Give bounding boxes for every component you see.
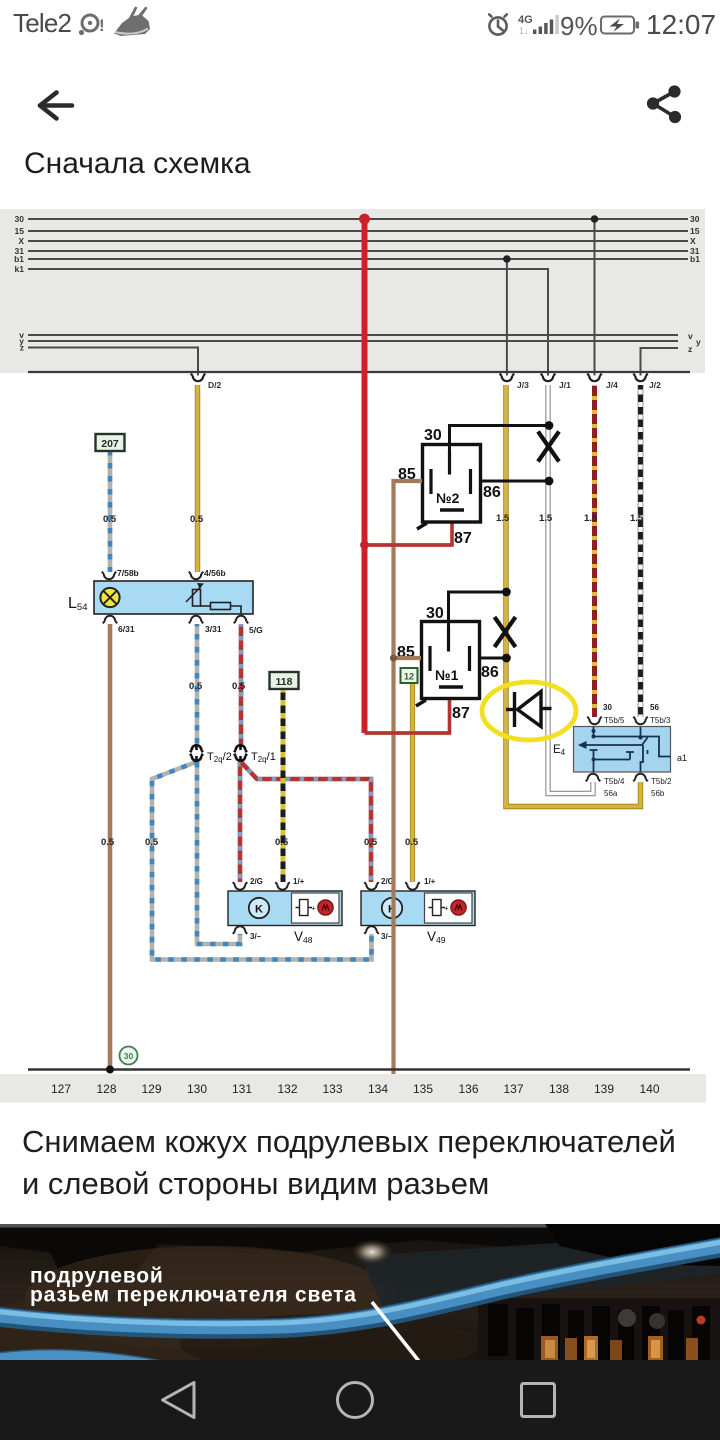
wire red/yellow from J/4 to E4 T5b/5	[592, 385, 597, 717]
wire grey/blue from T2q/2 to V48 3/-	[197, 762, 240, 944]
wire red from relay1 87 to red feed	[365, 699, 450, 733]
bus k1 wire to J/1	[28, 269, 548, 376]
headlight range motor V49	[361, 877, 475, 945]
wire red/blue from L54 5/G to splice T2q/1	[239, 624, 244, 744]
svg-text:z: z	[688, 344, 692, 354]
svg-text:56a: 56a	[604, 789, 618, 798]
svg-text:1↓: 1↓	[519, 26, 529, 36]
bus 31	[28, 250, 688, 252]
svg-text:133: 133	[322, 1082, 342, 1096]
photo	[0, 1224, 720, 1360]
svg-text:D/2: D/2	[208, 380, 222, 390]
diode between yellow and white wires	[506, 692, 552, 728]
node red feed to relay2 87	[360, 541, 369, 550]
svg-text:y: y	[696, 337, 701, 347]
svg-text:1.5: 1.5	[496, 513, 510, 524]
svg-text:0.5: 0.5	[275, 837, 289, 848]
pin V48 3/-	[233, 926, 247, 934]
svg-text:135: 135	[413, 1082, 433, 1096]
fuse label box 207	[96, 434, 125, 451]
alarm clock icon	[489, 14, 507, 34]
connector block	[478, 1298, 720, 1360]
connector J/1	[541, 374, 555, 382]
connector J/3	[500, 374, 514, 382]
pin 7/58b	[102, 572, 116, 580]
svg-text:207: 207	[101, 438, 119, 450]
svg-text:b1: b1	[690, 254, 700, 264]
node relay1 86 on yellow wire	[502, 654, 511, 663]
caption text	[22, 1121, 676, 1205]
wire J/4 drop from bus 30	[594, 219, 596, 376]
pin 3/31	[189, 616, 203, 624]
svg-text:137: 137	[503, 1082, 523, 1096]
svg-text:138: 138	[549, 1082, 569, 1096]
svg-text:12: 12	[404, 672, 414, 682]
app nav row: back arrow	[0, 70, 720, 140]
ground designation circle 30	[120, 1047, 138, 1065]
svg-text:1.5: 1.5	[630, 513, 644, 524]
pin V48 2/G	[233, 882, 247, 890]
svg-text:3/–: 3/–	[381, 932, 393, 941]
wire relay2 86 to white wire	[480, 480, 550, 483]
svg-text:4G: 4G	[518, 14, 533, 26]
svg-text:J/1: J/1	[559, 380, 571, 390]
svg-text:132: 132	[277, 1082, 297, 1096]
svg-text:56: 56	[650, 703, 659, 712]
highlight ellipse around diode	[482, 682, 576, 740]
svg-text:0.5: 0.5	[190, 514, 204, 525]
wire red relay2 87 over crossings	[367, 543, 452, 547]
svg-text:86: 86	[481, 664, 499, 681]
node on bus b1	[503, 255, 511, 263]
wire yellow from J/3 to E4 T5b/2	[506, 385, 641, 807]
svg-text:1.5: 1.5	[539, 513, 553, 524]
svg-text:z: z	[20, 343, 24, 353]
notification icon ring	[79, 15, 98, 35]
svg-text:127: 127	[51, 1082, 71, 1096]
red feed wire from bus 30	[362, 219, 368, 733]
wire red/blue from T2q/1 to V49 2/G	[241, 762, 371, 882]
current track number band	[0, 1074, 706, 1103]
svg-text:30: 30	[603, 703, 612, 712]
node brown1 on ground rail	[106, 1066, 114, 1074]
relay No2	[398, 427, 501, 547]
pin T5b/5	[587, 717, 601, 725]
svg-text:56b: 56b	[651, 789, 665, 798]
bus y	[28, 340, 678, 342]
splice label box 12	[401, 668, 418, 683]
status bar	[0, 0, 720, 48]
blue cable	[0, 1246, 720, 1329]
svg-text:1/+: 1/+	[424, 877, 436, 886]
wire red relay1 87 over crossings	[365, 731, 450, 735]
pin T5b/2	[633, 774, 647, 782]
svg-text:0.5: 0.5	[101, 837, 115, 848]
pin V49 1/+	[405, 882, 419, 890]
svg-text:134: 134	[368, 1082, 388, 1096]
wire relay1 86 to yellow wire	[479, 657, 507, 660]
svg-text:T2q/2: T2q/2	[207, 751, 232, 764]
bus b1	[28, 258, 688, 260]
svg-text:0.5: 0.5	[405, 837, 419, 848]
svg-text:86: 86	[483, 484, 501, 501]
bus z right wire to J/2	[641, 348, 679, 376]
svg-text:K: K	[255, 904, 263, 916]
svg-text:0.5: 0.5	[364, 837, 378, 848]
svg-text:4/56b: 4/56b	[204, 568, 226, 578]
svg-text:E4: E4	[553, 744, 566, 757]
svg-text:X: X	[18, 236, 24, 246]
wire grey/blue from L54 3/31 to splice T2q/2	[195, 624, 200, 744]
instrument lighting control L54	[68, 568, 263, 635]
svg-text:k1: k1	[15, 264, 25, 274]
wire brown from relay 85 terminals to ground rail	[394, 481, 423, 1074]
wire white from J/1 to E4 T5b/4	[548, 385, 593, 794]
svg-text:30: 30	[15, 214, 25, 224]
svg-text:№1: №1	[435, 667, 459, 683]
svg-text:5/G: 5/G	[249, 625, 263, 635]
node on bus 30	[591, 215, 599, 223]
gray bus band	[0, 209, 705, 373]
wire grey/blue from T2q/2 to V49 3/-	[152, 762, 372, 960]
wire black/white from J/2 to E4 T5b/3	[638, 385, 644, 717]
svg-text:v: v	[688, 331, 693, 341]
svg-text:15: 15	[15, 226, 25, 236]
bus z left wire to D/2	[28, 348, 198, 376]
svg-text:118: 118	[276, 676, 293, 688]
svg-text:T2q/1: T2q/1	[251, 751, 276, 764]
cut mark X on yellow wire	[495, 617, 516, 647]
svg-text:87: 87	[452, 705, 470, 722]
wire relay2 30 to white wire	[450, 426, 550, 453]
wire size labels 0.5	[101, 514, 419, 848]
svg-text:T5b/5: T5b/5	[604, 716, 625, 725]
svg-text:0.5: 0.5	[189, 681, 203, 692]
svg-text:V49: V49	[427, 929, 446, 945]
svg-text:129: 129	[141, 1082, 161, 1096]
pin 6/31	[103, 616, 117, 624]
svg-text:L54: L54	[68, 595, 87, 613]
wire grey/blue from 207 to L54 7/58b	[108, 450, 113, 572]
svg-text:1/+: 1/+	[293, 877, 305, 886]
pin 5/G	[234, 616, 248, 624]
svg-text:T5b/2: T5b/2	[651, 777, 672, 786]
svg-text:87: 87	[454, 530, 472, 547]
svg-text:3/31: 3/31	[205, 624, 222, 634]
shoe icon	[114, 7, 150, 37]
wire yellow from D/2 to L54 4/56b	[195, 385, 200, 572]
svg-text:J/2: J/2	[649, 380, 661, 390]
node relay2 30 on white wire	[545, 421, 554, 430]
svg-text:V48: V48	[294, 929, 313, 945]
pin V49 3/-	[364, 926, 378, 934]
svg-text:139: 139	[594, 1082, 614, 1096]
pin 4/56b	[189, 572, 203, 580]
svg-text:T5b/3: T5b/3	[650, 716, 671, 725]
wire relay1 30 to yellow wire	[449, 592, 507, 630]
svg-text:6/31: 6/31	[118, 624, 135, 634]
wire black/yellow from 118 to V48 1/+	[281, 690, 286, 882]
wire red from relay2 87 to red feed	[367, 523, 452, 545]
android nav bar	[0, 1360, 720, 1440]
pin T5b/3	[633, 717, 647, 725]
wire red/blue from T2q/1 to V48 2/G	[238, 762, 243, 882]
svg-text:15: 15	[690, 226, 700, 236]
svg-text:1.5: 1.5	[584, 513, 598, 524]
svg-text:T5b/4: T5b/4	[604, 777, 625, 786]
node relay1 30 on yellow wire	[502, 588, 511, 597]
headlight range motor V48	[228, 877, 342, 945]
svg-text:131: 131	[232, 1082, 252, 1096]
svg-text:X: X	[690, 236, 696, 246]
svg-text:b1: b1	[14, 254, 24, 264]
bus 30	[28, 218, 688, 220]
svg-text:30: 30	[690, 214, 700, 224]
band bottom edge	[28, 371, 690, 373]
node red feed top	[359, 214, 370, 225]
svg-text:30: 30	[424, 427, 442, 444]
wire J/3 drop from bus b1	[506, 259, 508, 376]
wire brown from L54 6/31 to ground rail	[108, 624, 113, 1069]
signal bars	[533, 20, 553, 35]
bus labels right	[688, 214, 701, 354]
node brown at relay1 85	[390, 654, 397, 661]
svg-text:!: !	[99, 16, 105, 35]
svg-text:№2: №2	[436, 490, 460, 506]
fuse label box 118	[270, 672, 299, 689]
title	[24, 147, 251, 181]
pin V49 2/G	[364, 882, 378, 890]
svg-text:130: 130	[187, 1082, 207, 1096]
svg-text:+: +	[444, 904, 449, 913]
connector J/2	[633, 374, 647, 382]
svg-text:0.5: 0.5	[232, 681, 246, 692]
svg-text:0.5: 0.5	[145, 837, 159, 848]
svg-text:J/3: J/3	[517, 380, 529, 390]
connector J/4	[587, 374, 601, 382]
light switch E4	[553, 703, 687, 798]
svg-text:30: 30	[426, 605, 444, 622]
bus 15	[28, 230, 688, 232]
pin T5b/4	[586, 774, 600, 782]
svg-text:136: 136	[458, 1082, 478, 1096]
bus labels left	[14, 214, 24, 353]
svg-text:разьем переключателя света: разьем переключателя света	[30, 1284, 357, 1307]
blue cable lower left	[0, 1357, 165, 1369]
bus X	[28, 240, 688, 242]
relay No1	[397, 605, 499, 722]
svg-text:3/–: 3/–	[250, 932, 262, 941]
svg-text:a1: a1	[677, 753, 687, 763]
wire yellow from splice 12 to V49 1/+	[410, 684, 415, 882]
battery	[601, 17, 639, 34]
wire size labels 1.5	[496, 513, 644, 524]
potentiometer symbol in L54	[186, 584, 241, 614]
svg-text:128: 128	[96, 1082, 116, 1096]
share icon	[647, 86, 680, 123]
lamp symbol in L54	[100, 588, 119, 607]
splice connector T2q/2	[190, 745, 203, 761]
svg-text:7/58b: 7/58b	[117, 568, 139, 578]
svg-text:+: +	[311, 904, 316, 913]
svg-text:2/G: 2/G	[250, 877, 263, 886]
pointer line	[372, 1302, 422, 1365]
ground rail	[28, 1068, 690, 1070]
bus v	[28, 334, 678, 336]
cut mark X on white wire	[538, 432, 559, 462]
node relay2 86 on white wire	[545, 477, 554, 486]
pin V48 1/+	[275, 882, 289, 890]
svg-text:140: 140	[639, 1082, 659, 1096]
svg-text:0.5: 0.5	[103, 514, 117, 525]
circuit schematic	[0, 195, 720, 1105]
svg-text:30: 30	[124, 1051, 134, 1061]
connector D/2	[191, 374, 205, 382]
splice connector T2q/1	[234, 745, 247, 761]
svg-text:J/4: J/4	[606, 380, 618, 390]
